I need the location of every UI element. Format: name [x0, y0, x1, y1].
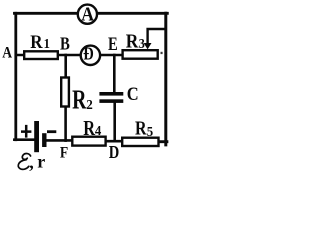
wire battery to F [46, 139, 72, 142]
stub dot near R3 right [161, 52, 163, 54]
wire left frame [14, 13, 17, 139]
svg-text:R: R [30, 31, 42, 52]
resistor R1 [24, 31, 58, 59]
wire R4 to R5 through D [106, 140, 123, 143]
resistor R2 [61, 78, 93, 116]
svg-text:R: R [83, 117, 95, 140]
resistor R4 [72, 117, 105, 146]
battery cell (short - plate) [42, 133, 46, 147]
svg-text:R: R [135, 117, 147, 139]
svg-text:R: R [72, 85, 87, 115]
svg-text:F: F [60, 145, 68, 162]
resistor R5 [122, 117, 158, 146]
svg-text:A: A [2, 45, 12, 62]
svg-text:1: 1 [44, 35, 50, 51]
wire top [15, 12, 168, 15]
wire right frame [164, 13, 167, 145]
svg-text:A: A [81, 4, 94, 27]
capacitor C [99, 83, 138, 104]
svg-text:2: 2 [86, 97, 93, 112]
wire bottom-left [14, 138, 34, 141]
wire R1 to lamp [58, 54, 82, 57]
svg-text:r: r [37, 152, 45, 172]
svg-text:3: 3 [139, 36, 145, 51]
battery plus sign [21, 125, 31, 138]
battery label script-E , r [18, 152, 45, 172]
svg-text:R: R [126, 30, 139, 52]
svg-text:E: E [108, 33, 118, 54]
svg-text:4: 4 [95, 123, 102, 138]
wire R5 to frame [159, 140, 167, 143]
wire B down to R2 [64, 55, 67, 77]
battery cell (long + plate) [34, 121, 39, 152]
wire capacitor down to D [113, 103, 116, 141]
lamp D [81, 43, 100, 65]
wire rheostat wiper arm [148, 29, 166, 43]
svg-text:5: 5 [147, 124, 154, 139]
arrowhead of wiper onto R3 [144, 43, 152, 49]
wire R2 down to F [64, 108, 67, 141]
ammeter A [78, 4, 97, 27]
svg-text:Đ: Đ [83, 43, 94, 64]
svg-text:B: B [60, 33, 70, 54]
wire row2 A to R1 [16, 54, 25, 57]
battery minus sign [47, 130, 56, 133]
svg-text:,: , [29, 152, 34, 172]
svg-text:C: C [127, 83, 139, 104]
svg-text:D: D [109, 144, 119, 162]
wire E down to capacitor [113, 55, 116, 93]
resistor R3 [123, 30, 158, 58]
wire lamp to R3 [101, 54, 123, 57]
